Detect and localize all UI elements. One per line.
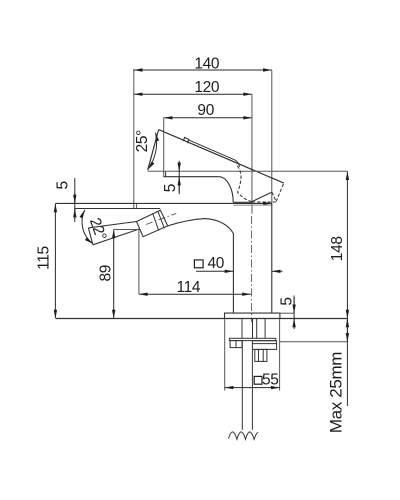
lower lever end face — [88, 228, 93, 245]
hose fitting — [255, 349, 267, 361]
extension line right 120/90 — [251, 94, 253, 214]
svg-text:25°: 25° — [134, 130, 151, 153]
svg-text:5: 5 — [162, 184, 179, 192]
lower lever top edge — [88, 222, 136, 228]
lower deck line (L2) — [75, 208, 160, 210]
pipe break squiggle — [229, 432, 259, 439]
spout under arc — [219, 177, 234, 203]
dimension 148 — [346, 171, 348, 318]
ring bottom line y176.7 — [163, 176, 218, 178]
extension tick — [136, 203, 138, 208]
nut — [252, 341, 276, 350]
dimension 5 right — [280, 312, 294, 314]
deck line — [56, 318, 348, 320]
shank verticals — [242, 319, 265, 339]
column left edge — [232, 234, 234, 314]
dimension 5 left — [74, 178, 76, 222]
dimension sq40 — [196, 270, 283, 272]
angle 22 arc — [82, 210, 93, 244]
column centerline — [251, 216, 253, 322]
washer bar — [229, 338, 275, 340]
flange — [225, 313, 280, 318]
Max25 extension — [280, 341, 348, 343]
angle 25 arc — [148, 133, 157, 170]
extension line left (140/120) — [133, 69, 135, 209]
spout tip dashed outline — [237, 166, 283, 202]
dimension 115 — [54, 204, 56, 319]
svg-text:114: 114 — [176, 279, 200, 296]
dimension 89 — [113, 230, 115, 319]
body top curve — [168, 219, 234, 234]
left block — [230, 341, 242, 348]
spout bottom — [233, 201, 252, 203]
lever tab — [183, 137, 188, 143]
svg-text:120: 120 — [194, 79, 220, 96]
extension line left 90 — [163, 118, 165, 177]
svg-text:140: 140 — [194, 55, 220, 72]
grip block — [137, 210, 168, 237]
dimension 5 top — [178, 161, 180, 194]
svg-text:Max 25mm: Max 25mm — [327, 352, 346, 433]
svg-text:115: 115 — [36, 246, 53, 270]
dimension 90 — [164, 117, 252, 119]
svg-text:22°: 22° — [86, 216, 110, 243]
114 left extension — [138, 230, 140, 295]
sq55 extension lines — [224, 319, 226, 391]
dimension 140 — [134, 69, 272, 71]
svg-text:5: 5 — [278, 297, 295, 305]
deck line upper (L1) — [55, 202, 271, 204]
dimension Max 25mm — [346, 319, 348, 407]
L1 right arrow — [258, 202, 272, 204]
body top line y171 — [148, 170, 348, 172]
svg-text:90: 90 — [197, 102, 214, 119]
dimension 120 — [134, 93, 252, 95]
lower lever bottom edge — [93, 229, 140, 245]
dimension 114 — [139, 293, 251, 295]
column top edge — [233, 204, 271, 206]
column right edge — [271, 203, 273, 313]
svg-text:148: 148 — [329, 236, 346, 261]
lever back edge — [148, 130, 159, 171]
supply pipes — [241, 341, 243, 430]
svg-text:55: 55 — [262, 372, 279, 389]
dimension sq55 — [225, 387, 280, 389]
svg-text:89: 89 — [98, 265, 115, 282]
ring notch — [165, 171, 167, 176]
extension line right 140 — [271, 70, 273, 203]
89 top extension — [114, 229, 140, 231]
spout notch — [252, 192, 272, 202]
svg-text:5: 5 — [54, 181, 71, 189]
lever inner line — [189, 140, 240, 167]
svg-text:40: 40 — [208, 255, 225, 272]
lever top edge — [159, 130, 284, 184]
grip knurl lines — [153, 213, 159, 231]
lever axis centerline — [146, 213, 176, 224]
